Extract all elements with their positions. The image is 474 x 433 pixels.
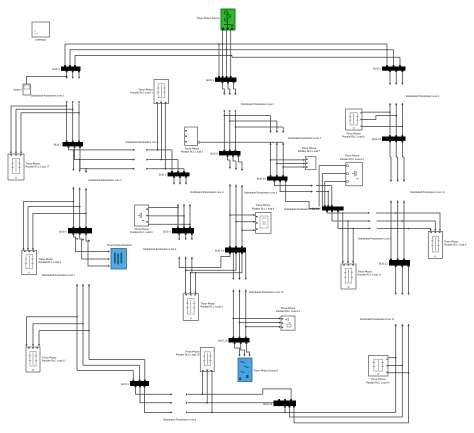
- wire phase C top left: [75, 54, 232, 56]
- bus BUS 13: [257, 175, 288, 182]
- bus BUS 3: [373, 65, 405, 72]
- label distributed parameters line 5: [358, 238, 392, 241]
- wire BUS10 to right column: [327, 210, 409, 229]
- svg-text:Parallel RLC Load 8: Parallel RLC Load 8: [252, 207, 275, 210]
- svg-text:Distributed Parameters Line 1: Distributed Parameters Line 1: [31, 95, 65, 98]
- wire L9 taps: [388, 357, 409, 374]
- svg-text:Parallel RLC Load 4: Parallel RLC Load 4: [201, 306, 224, 309]
- svg-text:BUS 4: BUS 4: [163, 230, 171, 233]
- load block L12 three-phase parallel RLC load 2: [181, 127, 204, 154]
- wire BUS7 branches: [69, 146, 136, 228]
- label distributed parameters line 7: [288, 137, 322, 140]
- bus BUS 6: [52, 65, 80, 72]
- wire BUS1 pin: [218, 43, 220, 77]
- wire BUS3 to BUS11 chain: [389, 71, 404, 137]
- wire taps to BUS 13 via line 7: [224, 115, 285, 177]
- three-phase source 2 block (cyan): [238, 358, 279, 382]
- wire left turns to BUS 6: [65, 44, 75, 67]
- wire L11 drops: [157, 104, 166, 170]
- svg-text:Parallel RLC Load 5: Parallel RLC Load 5: [342, 136, 365, 139]
- svg-text:BUS 12: BUS 12: [379, 263, 388, 266]
- svg-text:Scope1: Scope1: [13, 89, 22, 92]
- three-phase breaker block (cyan): [107, 244, 133, 269]
- load block L7 three-phase parallel RLC load 11: [341, 264, 382, 289]
- svg-text:Parallel RLC Load 17: Parallel RLC Load 17: [26, 165, 50, 168]
- wire BUS4 staircases to BUS14: [178, 233, 242, 272]
- svg-text:BUS 5: BUS 5: [59, 230, 67, 233]
- wire BUS11 to BUS12 chain: [390, 141, 405, 260]
- bus BUS 4: [163, 227, 194, 235]
- wire BUS1 to BUS8 lines: [223, 82, 237, 151]
- wire BUS8 to BUS14 chain: [228, 155, 244, 247]
- svg-text:Distributed Parameters Line 12: Distributed Parameters Line 12: [249, 291, 284, 294]
- label distributed parameters line 12: [249, 291, 284, 294]
- svg-text:Distributed Parameters Line 4: Distributed Parameters Line 4: [244, 191, 278, 194]
- bus BUS 14: [215, 246, 246, 254]
- svg-text:Distributed Parameters Line 11: Distributed Parameters Line 11: [360, 318, 395, 321]
- wire taps to load3: [22, 201, 86, 251]
- load block L15 three-phase parallel RLC load 8: [252, 204, 275, 233]
- load block L16 three-phase parallel RLC load 9: [130, 205, 153, 234]
- label distributed parameters line 10: [410, 191, 445, 194]
- svg-text:Parallel RLC Load 1: Parallel RLC Load 1: [130, 92, 153, 95]
- load block L14 three-phase parallel RLC load 14: [340, 155, 364, 186]
- wire to load4: [184, 269, 196, 293]
- svg-text:BUS 16: BUS 16: [263, 403, 272, 406]
- svg-text:BUS 15: BUS 15: [218, 339, 227, 342]
- bus BUS 2: [159, 171, 190, 178]
- label distributed parameters line 11: [360, 318, 395, 321]
- label distributed parameters line 2b: [42, 274, 76, 277]
- svg-text:BUS 13: BUS 13: [257, 177, 266, 180]
- label distributed parameters line 3: [190, 191, 224, 194]
- svg-text:Parallel RLC Load 12: Parallel RLC Load 12: [42, 360, 66, 363]
- wire BUS5 to breaker: [73, 233, 110, 267]
- wire verticals to load11: [342, 213, 355, 264]
- load block L4 three-phase parallel RLC load 4: [183, 294, 223, 321]
- svg-text:Parallel RLC Load 6: Parallel RLC Load 6: [444, 244, 467, 247]
- label distributed parameters line 9: [406, 95, 440, 98]
- load block L11 three-phase parallel RLC load 1: [130, 80, 168, 104]
- svg-text:Parallel RLC Load 15: Parallel RLC Load 15: [176, 354, 200, 357]
- svg-text:Parallel RLC Load 9: Parallel RLC Load 9: [130, 231, 153, 234]
- svg-text:Distributed Parameters Line 13: Distributed Parameters Line 13: [284, 208, 319, 211]
- svg-text:Distributed Parameters Line 7: Distributed Parameters Line 7: [288, 137, 322, 140]
- wire source drops to BUS 1: [222, 30, 232, 78]
- label distributed parameters line 4b: [89, 179, 123, 182]
- svg-text:BUS 6: BUS 6: [52, 68, 60, 71]
- scope1 block: [13, 84, 30, 95]
- svg-text:Three-Phase Source: Three-Phase Source: [196, 17, 220, 20]
- label distributed parameters line 2a: [241, 103, 275, 106]
- label distributed parameters line 13: [284, 208, 319, 211]
- label distributed parameters line 1: [31, 95, 65, 98]
- bus BUS 9: [121, 380, 149, 388]
- wire taps to load1: [10, 105, 80, 154]
- svg-text:Distributed Parameters Line 2: Distributed Parameters Line 2: [42, 274, 76, 277]
- svg-text:Parallel RLC Load 11: Parallel RLC Load 11: [358, 274, 382, 277]
- svg-text:Parallel RLC Load 13: Parallel RLC Load 13: [276, 310, 300, 313]
- svg-text:Parallel RLC Load 10: Parallel RLC Load 10: [366, 381, 390, 384]
- wire BUS5 bottom-left loop: [25, 238, 90, 371]
- load block L8 three-phase parallel RLC load 6: [428, 231, 467, 258]
- wire line2 resume into BUS 2: [146, 149, 184, 173]
- wire L12 output: [200, 141, 283, 143]
- powergui block: [32, 22, 50, 42]
- label distributed parameters line 6: [143, 248, 177, 251]
- bus BUS 7: [54, 141, 83, 148]
- wire BUS13 to BUS10 link: [275, 180, 332, 208]
- wire BUS15 to source2: [235, 342, 251, 356]
- wire taps to load8: [229, 214, 255, 231]
- load block L2 three-phase parallel RLC load 3: [22, 251, 62, 275]
- load block L1 three-phase parallel RLC load 17: [8, 154, 50, 180]
- bus BUS 8: [210, 150, 240, 157]
- wire L5 drops: [202, 372, 213, 414]
- wire loop to BUS9: [77, 360, 145, 382]
- svg-text:BUS 14: BUS 14: [215, 249, 224, 252]
- wire scope1 to bus feed: [27, 76, 68, 84]
- svg-text:Parallel RLC Load 3: Parallel RLC Load 3: [39, 261, 62, 264]
- svg-text:Distributed Parameters Line 8: Distributed Parameters Line 8: [163, 418, 197, 421]
- svg-text:Distributed Parameters Line 2: Distributed Parameters Line 2: [126, 141, 160, 144]
- svg-text:Distributed Parameters Line 2: Distributed Parameters Line 2: [241, 103, 275, 106]
- wire right turns to BUS 3: [387, 44, 400, 67]
- svg-text:Distributed Parameters Line 5: Distributed Parameters Line 5: [358, 238, 392, 241]
- wire taps to load7: [270, 159, 306, 168]
- load block L6 three-phase parallel RLC load 13: [276, 307, 300, 330]
- three-phase source block (green): [196, 9, 235, 30]
- svg-text:BUS 3: BUS 3: [373, 68, 381, 71]
- wire BUS2 to BUS4 chain: [173, 176, 191, 228]
- label distributed parameters line 8: [163, 418, 197, 421]
- bus BUS 12: [379, 259, 410, 267]
- svg-text:BUS 2: BUS 2: [159, 173, 167, 176]
- bus BUS 5: [59, 227, 92, 235]
- wire phase B top: [70, 49, 394, 51]
- bus BUS 10: [312, 205, 344, 212]
- svg-text:Distributed Parameters Line 10: Distributed Parameters Line 10: [410, 191, 445, 194]
- load block L10 three-phase parallel RLC load 5: [342, 109, 365, 139]
- svg-text:Distributed Parameters Line 4: Distributed Parameters Line 4: [89, 179, 123, 182]
- wire phase C jog: [232, 55, 400, 57]
- svg-text:Three-Phase Breaker1: Three-Phase Breaker1: [107, 244, 133, 247]
- svg-text:BUS 11: BUS 11: [372, 138, 381, 141]
- svg-text:Three-Phase Source2: Three-Phase Source2: [254, 370, 279, 373]
- svg-text:powergui: powergui: [35, 39, 46, 42]
- svg-text:BUS 7: BUS 7: [54, 143, 62, 146]
- svg-text:BUS 8: BUS 8: [210, 152, 218, 155]
- wire BUS14 to BUS15 chain: [232, 252, 247, 338]
- load block L3 three-phase parallel RLC load 12: [26, 347, 66, 372]
- svg-text:Distributed Parameters Line 3: Distributed Parameters Line 3: [190, 191, 224, 194]
- wire taps to load13: [233, 317, 282, 328]
- svg-text:Parallel RLC Load 7: Parallel RLC Load 7: [298, 150, 321, 153]
- wire L8 feeds: [396, 213, 441, 231]
- label distributed parameters line 4: [244, 191, 278, 194]
- wire L10 taps: [362, 111, 403, 127]
- svg-text:BUS 9: BUS 9: [121, 383, 129, 386]
- bus BUS 11: [372, 135, 405, 142]
- svg-text:Distributed Parameters Line 6: Distributed Parameters Line 6: [143, 248, 177, 251]
- svg-text:Parallel RLC Load 14: Parallel RLC Load 14: [340, 158, 364, 161]
- wire phase A top: [65, 43, 387, 45]
- bus BUS 16: [263, 399, 296, 407]
- wire BUS9 to BUS16: [136, 386, 396, 413]
- bus BUS 1: [206, 76, 236, 83]
- load block L13 three-phase parallel RLC load 7: [298, 147, 321, 170]
- wire L14 ports to verticals: [319, 166, 346, 207]
- svg-text:BUS 1: BUS 1: [206, 79, 214, 82]
- bus BUS 15: [218, 337, 249, 344]
- load block L9 three-phase parallel RLC load 10: [366, 356, 390, 385]
- wire BUS12 down chain: [395, 266, 410, 423]
- wire L16 to BUS4: [149, 207, 191, 228]
- svg-text:Distributed Parameters Line 9: Distributed Parameters Line 9: [406, 95, 440, 98]
- svg-text:Parallel RLC Load 2: Parallel RLC Load 2: [181, 151, 204, 154]
- label distributed parameters line 2c: [126, 141, 160, 144]
- wire BUS6 to BUS7 chain: [66, 71, 81, 142]
- wire bottom right loop: [284, 406, 408, 423]
- load block L5 three-phase parallel RLC load 15: [176, 348, 214, 372]
